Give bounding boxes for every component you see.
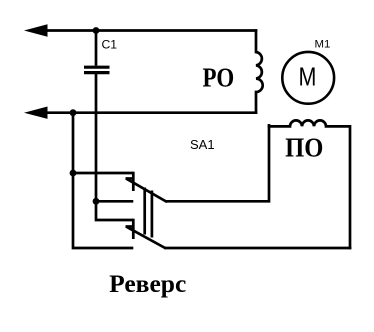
- svg-text:M1: M1: [315, 39, 331, 51]
- capacitor C1: [84, 67, 110, 72]
- svg-text:Реверс: Реверс: [109, 269, 186, 298]
- wire bottom supply line (RO return): [44, 111, 257, 114]
- switch SA1 blade A tail tick: [126, 177, 134, 180]
- wire SA1 common A to PO: [166, 124, 269, 201]
- svg-text:РО: РО: [202, 64, 234, 93]
- switch SA1 blade B tail tick: [126, 225, 134, 228]
- svg-text:C1: C1: [102, 38, 118, 52]
- switch SA1 linkage bar 2: [151, 191, 154, 238]
- terminal arrow top (supply line 1): [24, 24, 48, 36]
- motor M1 circle: [282, 52, 334, 104]
- wire bottom rail SA1 common B to PO: [165, 247, 352, 250]
- winding PO (top edge coil bumps and right edge): [268, 120, 350, 249]
- node junction switch feed upper: [70, 170, 77, 177]
- switch SA1 blade B: [126, 227, 166, 249]
- wire middle contact A of SA1: [96, 200, 133, 203]
- wire left drop to bottom rail: [73, 113, 133, 248]
- svg-text:M: M: [298, 63, 316, 92]
- svg-text:ПО: ПО: [285, 132, 323, 162]
- switch SA1 linkage bar 1: [143, 188, 146, 235]
- wire C1 top lead: [95, 31, 98, 66]
- contact bar A of SA1: [132, 172, 135, 191]
- winding RO (right edge of loop with coil bumps): [256, 29, 263, 114]
- terminal arrow bottom (supply line 2): [24, 107, 48, 119]
- contact bar B of SA1: [132, 219, 135, 239]
- wire top supply line to RO: [44, 29, 257, 32]
- node junction C1 / top wire: [93, 27, 100, 34]
- node junction bottom wire / left drop: [70, 109, 77, 116]
- wire to SA1 upper contact A: [73, 172, 133, 175]
- wire C1 bottom lead down to SA1: [96, 74, 133, 220]
- svg-text:SA1: SA1: [190, 137, 215, 152]
- node junction C1 lead / middle contact: [93, 198, 100, 205]
- switch SA1 blade A: [126, 179, 167, 203]
